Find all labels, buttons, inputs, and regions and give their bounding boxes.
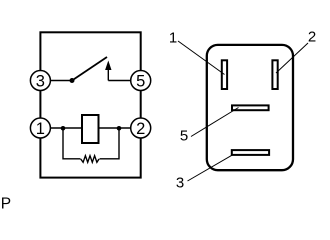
- wire stub from arrow to pin 5: [108, 80, 131, 82]
- leader line for label 3: [188, 155, 233, 181]
- resistor branch right wire: [100, 128, 120, 159]
- pin 1 terminal circle: [30, 118, 50, 138]
- pin 5 terminal circle: [131, 71, 151, 91]
- svg-text:1: 1: [169, 30, 177, 47]
- resistor zigzag: [81, 156, 99, 163]
- pin 5 slot: [232, 105, 269, 110]
- svg-text:3: 3: [36, 72, 45, 90]
- junction dot right: [117, 126, 122, 131]
- pin 2 slot: [272, 60, 277, 89]
- wire from right junction to pin 2: [119, 127, 137, 129]
- svg-text:5: 5: [136, 72, 145, 90]
- switch contact dot: [70, 78, 75, 83]
- pin 3 terminal circle: [30, 71, 50, 91]
- wire through coil row: [63, 127, 119, 129]
- switch actuation arrow: [105, 61, 111, 81]
- svg-text:P: P: [1, 196, 11, 210]
- resistor branch left wire: [63, 128, 81, 159]
- svg-text:2: 2: [136, 120, 145, 138]
- connector body: [207, 45, 293, 170]
- svg-text:1: 1: [36, 120, 45, 138]
- relay coil: [82, 115, 99, 143]
- wire from pin 1 to left junction: [44, 127, 63, 129]
- svg-text:5: 5: [180, 128, 188, 145]
- pin 3 slot: [232, 150, 269, 155]
- svg-text:2: 2: [308, 29, 316, 46]
- pin 2 terminal circle: [131, 118, 151, 138]
- leader line for label 5: [191, 108, 239, 137]
- svg-text:3: 3: [176, 175, 184, 192]
- pin 1 slot: [222, 60, 227, 89]
- leader line for label 1: [178, 41, 225, 75]
- junction dot left: [61, 126, 66, 131]
- wire from pin 3 to switch contact: [44, 80, 72, 82]
- switch blade: [72, 57, 107, 81]
- leader line for label 2: [276, 43, 308, 73]
- relay outline box: [40, 32, 140, 177]
